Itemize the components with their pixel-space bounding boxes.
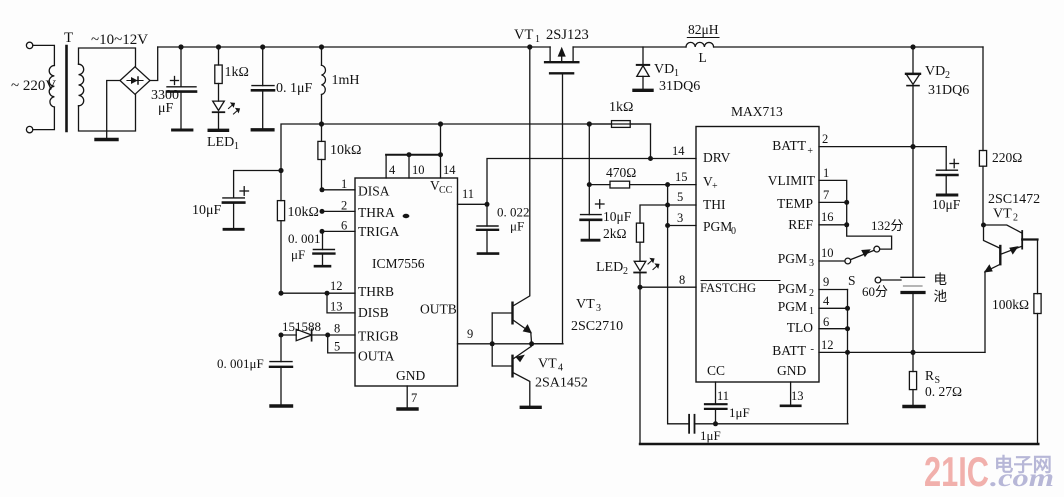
svg-text:6: 6 bbox=[341, 219, 347, 233]
wire VT1 gate line bbox=[532, 73, 563, 344]
transistor VT2 2SC1472 bbox=[984, 225, 1038, 352]
resistor 10k (THRA branch) bbox=[277, 171, 284, 294]
svg-text:THI: THI bbox=[703, 197, 726, 212]
svg-text:12: 12 bbox=[821, 338, 834, 352]
ground (LED1) bbox=[209, 129, 227, 132]
node dot VT2 top bbox=[981, 223, 986, 228]
resistor 1k (DRV branch) bbox=[589, 121, 650, 159]
label 82uH bbox=[688, 22, 719, 37]
svg-text:13: 13 bbox=[791, 389, 804, 403]
wire pin9 OUTB bbox=[458, 343, 564, 345]
node dots top rail bbox=[178, 44, 532, 49]
svg-text:CC: CC bbox=[439, 185, 453, 196]
wire CC bottom rail bbox=[668, 423, 848, 425]
svg-text:132分: 132分 bbox=[871, 218, 904, 233]
resistor 220 bbox=[979, 151, 986, 167]
svg-text:0. 27Ω: 0. 27Ω bbox=[925, 384, 962, 399]
svg-text:2: 2 bbox=[822, 132, 828, 146]
svg-text:8: 8 bbox=[679, 273, 685, 287]
top rail left segment bbox=[158, 46, 550, 48]
ground (pin7 GND) bbox=[398, 386, 417, 409]
resistor 10k (from rail) bbox=[318, 124, 325, 190]
svg-text:0. 001μF: 0. 001μF bbox=[217, 356, 264, 371]
label VT2 2SC1472 bbox=[988, 192, 1040, 224]
top rail right segment bbox=[573, 46, 686, 48]
svg-text:1: 1 bbox=[809, 306, 814, 317]
resistor 2k bbox=[636, 223, 643, 242]
wire pin9 down to CC rail bbox=[847, 290, 849, 424]
label VT4 2SA1452 bbox=[535, 357, 588, 391]
wire pin5 OUTA bbox=[328, 335, 355, 353]
svg-text:0. 1μF: 0. 1μF bbox=[276, 81, 313, 96]
node dot pin6 MAX bbox=[845, 326, 850, 331]
svg-text:10μF: 10μF bbox=[603, 209, 632, 224]
switch S bbox=[819, 246, 880, 264]
capacitor 0.1uF bbox=[252, 47, 274, 130]
node dot VD2 top bbox=[910, 44, 915, 49]
ground (pin13 GND stub) bbox=[781, 382, 800, 406]
svg-text:TEMP: TEMP bbox=[777, 196, 813, 211]
svg-text:GND: GND bbox=[777, 363, 806, 378]
svg-text:2: 2 bbox=[809, 288, 814, 299]
svg-text:1kΩ: 1kΩ bbox=[609, 100, 633, 115]
svg-text:PGM: PGM bbox=[778, 251, 807, 266]
svg-text:5: 5 bbox=[334, 340, 340, 354]
bridge rectifier bbox=[120, 67, 150, 95]
node dot LED2 junction bbox=[638, 285, 643, 290]
svg-text:2SC2710: 2SC2710 bbox=[571, 319, 623, 334]
node dot pin12 branch bbox=[279, 291, 284, 296]
label 3300uF bbox=[151, 88, 179, 116]
op-amp U1 ICM7556 box bbox=[355, 178, 458, 386]
svg-text:OUTB: OUTB bbox=[420, 302, 457, 317]
ground (VD1) bbox=[634, 89, 652, 92]
pin number labels ICM7556 bbox=[330, 163, 474, 405]
svg-text:11: 11 bbox=[717, 389, 729, 403]
svg-text:2SC1472: 2SC1472 bbox=[988, 192, 1040, 207]
svg-text:BATT: BATT bbox=[772, 343, 807, 358]
svg-text:2: 2 bbox=[341, 199, 347, 213]
svg-text:6: 6 bbox=[823, 315, 829, 329]
svg-text:~ 220V: ~ 220V bbox=[11, 78, 56, 94]
LED2 bbox=[634, 242, 659, 287]
bottom rail bbox=[640, 443, 1038, 445]
svg-text:LED: LED bbox=[596, 260, 623, 275]
svg-text:10: 10 bbox=[412, 163, 425, 177]
svg-text:VT: VT bbox=[514, 27, 533, 43]
wire PGM1 pin4 bbox=[819, 307, 848, 309]
svg-text:FASTCHG: FASTCHG bbox=[700, 281, 756, 295]
inductor L 82uH bbox=[686, 42, 714, 47]
svg-text:21IC: 21IC bbox=[924, 448, 989, 495]
svg-text:151588: 151588 bbox=[282, 319, 321, 334]
svg-text:1: 1 bbox=[674, 68, 679, 79]
svg-text:.com: .com bbox=[990, 465, 1054, 492]
svg-text:ICM7556: ICM7556 bbox=[372, 256, 425, 271]
svg-text:10: 10 bbox=[821, 246, 834, 260]
svg-text:10kΩ: 10kΩ bbox=[330, 143, 361, 158]
top rail after inductor bbox=[714, 46, 983, 48]
svg-text:2: 2 bbox=[945, 70, 950, 81]
node dot pin7 bbox=[844, 200, 849, 205]
svg-text:VT: VT bbox=[993, 207, 1012, 222]
svg-text:1: 1 bbox=[341, 177, 347, 191]
svg-text:DISA: DISA bbox=[358, 184, 390, 199]
svg-text:1: 1 bbox=[823, 166, 829, 180]
svg-text:4: 4 bbox=[389, 163, 396, 177]
wire pin11 to DRV bbox=[458, 159, 697, 205]
capacitor 1uF (CC) bbox=[705, 382, 727, 424]
svg-text:-: - bbox=[810, 343, 814, 355]
svg-text:15: 15 bbox=[675, 170, 688, 184]
transistor Q VT4 2SA1452 bbox=[492, 344, 531, 406]
svg-text:7: 7 bbox=[823, 188, 829, 202]
node dot 470 left bbox=[587, 182, 592, 187]
wire TEMP pin7 bbox=[819, 201, 847, 203]
resistor 100k bbox=[1034, 240, 1041, 445]
resistor 470 bbox=[589, 124, 696, 188]
transformer T bbox=[26, 42, 135, 133]
svg-text:BATT: BATT bbox=[772, 138, 807, 153]
svg-text:2: 2 bbox=[1013, 213, 1018, 224]
LED1 bbox=[213, 101, 240, 129]
svg-text:4: 4 bbox=[558, 363, 563, 374]
svg-text:4: 4 bbox=[823, 294, 830, 308]
svg-text:VD: VD bbox=[654, 62, 674, 77]
svg-text:VD: VD bbox=[925, 64, 945, 79]
label VT3 2SC2710 bbox=[571, 297, 623, 334]
wire FASTCHG bbox=[640, 286, 696, 288]
label LED1 bbox=[207, 135, 239, 152]
node dot pin4 bbox=[845, 306, 850, 311]
svg-text:10μF: 10μF bbox=[932, 197, 961, 212]
svg-text:THRA: THRA bbox=[358, 205, 395, 220]
capacitor 0.001uF (TRIGA) bbox=[313, 231, 334, 266]
svg-text:LED: LED bbox=[207, 135, 234, 150]
capacitor 10uF (battery side) bbox=[937, 147, 959, 195]
svg-text:+: + bbox=[807, 146, 813, 157]
MAX713 pin name labels bbox=[700, 150, 806, 378]
FASTCHG overline bbox=[701, 280, 780, 282]
node dot BATT+ bbox=[910, 144, 915, 149]
wire THI bbox=[640, 205, 696, 223]
svg-text:1mH: 1mH bbox=[332, 73, 360, 88]
svg-text:13: 13 bbox=[330, 300, 343, 314]
svg-text:1μF: 1μF bbox=[729, 405, 750, 420]
svg-text:T: T bbox=[64, 30, 73, 46]
svg-text:0. 001: 0. 001 bbox=[288, 231, 321, 246]
node dot pin16 bbox=[844, 222, 849, 227]
node dot pin2 bbox=[320, 209, 325, 214]
wire top rail corner down bbox=[982, 47, 984, 151]
wire TLO pin6 bbox=[819, 328, 848, 330]
capacitor 10uF (V+) bbox=[581, 185, 604, 241]
node dot DRV junction bbox=[648, 156, 653, 161]
label VD2 31DQ6 bbox=[925, 64, 969, 98]
svg-text:0. 022: 0. 022 bbox=[497, 205, 530, 220]
wire pin6 TRIGA bbox=[322, 230, 355, 232]
diode VD1 31DQ6 bbox=[637, 47, 649, 89]
capacitor 0.001uF (lower) bbox=[270, 335, 292, 405]
svg-text:100kΩ: 100kΩ bbox=[992, 297, 1029, 312]
node dot pin11 bbox=[485, 202, 490, 207]
svg-text:TLO: TLO bbox=[787, 320, 813, 335]
node dot CC cap bottom bbox=[713, 421, 718, 426]
svg-text:16: 16 bbox=[821, 210, 834, 224]
svg-text:R: R bbox=[925, 368, 934, 383]
label VD1 31DQ6 bbox=[654, 62, 700, 94]
wire pin2 THRA bbox=[322, 210, 355, 212]
node dot THI cross bbox=[665, 203, 670, 208]
watermark 21IC bbox=[924, 448, 1054, 495]
svg-text:12: 12 bbox=[330, 279, 343, 293]
ICM7556 pin labels bbox=[358, 178, 457, 383]
node dot V+ branch bbox=[665, 182, 670, 187]
IC U2 MAX713 box bbox=[696, 127, 819, 383]
ground (bridge) bbox=[96, 138, 117, 141]
svg-text:3: 3 bbox=[596, 303, 601, 314]
capacitor 3300uF bbox=[167, 47, 196, 130]
node dot PGM0 bbox=[665, 223, 670, 228]
svg-text:2SJ123: 2SJ123 bbox=[546, 27, 589, 43]
inductor 1mH bbox=[322, 47, 326, 124]
wire VLIMIT pin1 bbox=[819, 180, 892, 249]
label VT1 2SJ123 bbox=[514, 27, 589, 45]
pin 4/10/14 top bracket bbox=[386, 124, 443, 178]
svg-text:9: 9 bbox=[823, 275, 829, 289]
node dot base feed bbox=[490, 341, 495, 346]
node dot pin12/13 tie bbox=[325, 291, 330, 296]
svg-text:3: 3 bbox=[677, 211, 683, 225]
diode 151588 bbox=[281, 329, 355, 340]
svg-text:VT: VT bbox=[576, 297, 595, 312]
svg-text:10kΩ: 10kΩ bbox=[288, 205, 319, 220]
label 0.001uF (TRIGA) bbox=[288, 231, 321, 262]
svg-text:池: 池 bbox=[934, 289, 948, 304]
svg-text:14: 14 bbox=[672, 144, 685, 158]
svg-text:PGM: PGM bbox=[703, 219, 732, 234]
svg-text:220Ω: 220Ω bbox=[992, 150, 1022, 165]
svg-text:TRIGB: TRIGB bbox=[358, 329, 399, 344]
svg-text:7: 7 bbox=[411, 391, 417, 405]
capacitor 0.022uF bbox=[477, 204, 498, 253]
svg-text:14: 14 bbox=[443, 163, 456, 177]
svg-text:1: 1 bbox=[535, 34, 540, 45]
label LED2 bbox=[596, 260, 628, 277]
svg-text:10μF: 10μF bbox=[192, 203, 222, 218]
svg-text:~10~12V: ~10~12V bbox=[91, 32, 148, 48]
svg-text:PGM: PGM bbox=[778, 281, 807, 296]
svg-text:TRIGA: TRIGA bbox=[358, 224, 399, 239]
ground (RS) bbox=[904, 405, 924, 408]
wire PGM0 to CC bottom bbox=[667, 185, 669, 424]
node dot 10uF branch bbox=[278, 168, 283, 173]
resistor 1k (LED1 branch) bbox=[215, 47, 222, 101]
wire PGM2 pin9 bbox=[819, 289, 848, 291]
svg-text:1: 1 bbox=[234, 141, 239, 152]
svg-text:MAX713: MAX713 bbox=[731, 104, 783, 119]
node dot pin1 bbox=[320, 187, 325, 192]
svg-text:60分: 60分 bbox=[862, 284, 888, 299]
THRA pointer mark bbox=[403, 214, 410, 218]
node dot pin8/5 tie bbox=[325, 333, 330, 338]
svg-text:9: 9 bbox=[467, 327, 473, 341]
wire pin13 DISB bbox=[327, 293, 355, 313]
second rail (Vcc rail) bbox=[281, 124, 651, 171]
svg-text:L: L bbox=[699, 50, 707, 65]
svg-text:1μF: 1μF bbox=[700, 428, 721, 443]
switch 60min contact bbox=[875, 277, 901, 283]
wire BATT+ pin2 bbox=[819, 146, 946, 148]
svg-text:CC: CC bbox=[707, 363, 725, 378]
node dots second rail bbox=[319, 121, 592, 126]
transistor VT1 2SJ123 MOSFET bbox=[545, 47, 578, 73]
svg-text:1kΩ: 1kΩ bbox=[225, 65, 249, 80]
svg-text:2: 2 bbox=[623, 266, 628, 277]
MAX713 pin number labels bbox=[672, 132, 834, 403]
svg-text:0: 0 bbox=[731, 226, 736, 237]
svg-text:82μH: 82μH bbox=[688, 22, 719, 37]
svg-text:电: 电 bbox=[934, 272, 948, 287]
svg-text:VT: VT bbox=[538, 357, 557, 372]
node dot pin12 bbox=[845, 350, 850, 355]
capacitor 1uF (series) bbox=[689, 415, 694, 433]
svg-text:OUTA: OUTA bbox=[358, 349, 395, 364]
svg-text:REF: REF bbox=[788, 217, 813, 232]
ground (0.001uF lower) bbox=[271, 404, 292, 407]
diode VD2 31DQ6 bbox=[906, 47, 920, 147]
svg-text:μF: μF bbox=[510, 219, 524, 234]
wire pin12 THRB bbox=[281, 292, 355, 294]
svg-text:PGM: PGM bbox=[778, 299, 807, 314]
node dot diode left bbox=[279, 333, 284, 338]
label battery bbox=[934, 272, 948, 304]
label RS 0.27 bbox=[925, 368, 962, 399]
wire bridge left to ground bbox=[107, 81, 120, 139]
svg-text:2kΩ: 2kΩ bbox=[603, 226, 627, 241]
svg-text:11: 11 bbox=[462, 187, 474, 201]
svg-text:VLIMIT: VLIMIT bbox=[768, 173, 816, 188]
node dot pin6 bbox=[320, 229, 325, 234]
wire REF pin16 bbox=[819, 224, 847, 226]
svg-text:DISB: DISB bbox=[358, 305, 389, 320]
svg-text:2SA1452: 2SA1452 bbox=[535, 376, 588, 391]
svg-text:THRB: THRB bbox=[358, 284, 394, 299]
wire PGM0 bbox=[668, 225, 696, 227]
wire base feed vertical bbox=[491, 313, 493, 366]
node dot battery bottom bbox=[910, 350, 915, 355]
svg-text:S: S bbox=[848, 273, 856, 288]
wire bridge right to top rail bbox=[150, 47, 158, 81]
wire pin1 DISA bbox=[322, 189, 355, 191]
svg-text:5: 5 bbox=[677, 190, 683, 204]
svg-text:31DQ6: 31DQ6 bbox=[659, 79, 700, 94]
ground (VT4) bbox=[521, 406, 540, 409]
battery bbox=[901, 147, 925, 353]
svg-text:3: 3 bbox=[809, 258, 814, 269]
wire 220 to VT2 bbox=[982, 166, 984, 225]
wire LED2 down to bottom rail bbox=[639, 287, 641, 444]
transistor Q VT3 2SC2710 bbox=[492, 47, 531, 344]
svg-text:GND: GND bbox=[396, 368, 425, 383]
svg-text:+: + bbox=[712, 181, 718, 192]
resistor RS 0.27 bbox=[909, 352, 916, 405]
label 0.022uF bbox=[497, 205, 530, 234]
svg-text:μF: μF bbox=[158, 101, 174, 116]
svg-text:DRV: DRV bbox=[703, 150, 731, 165]
svg-text:8: 8 bbox=[334, 322, 340, 336]
node dot output junction bbox=[529, 341, 534, 346]
svg-text:31DQ6: 31DQ6 bbox=[928, 83, 969, 98]
wire BATT- pin12 bbox=[819, 351, 985, 353]
svg-text:μF: μF bbox=[291, 247, 305, 262]
capacitor 10uF (left) bbox=[223, 171, 281, 230]
svg-text:470Ω: 470Ω bbox=[606, 165, 636, 180]
